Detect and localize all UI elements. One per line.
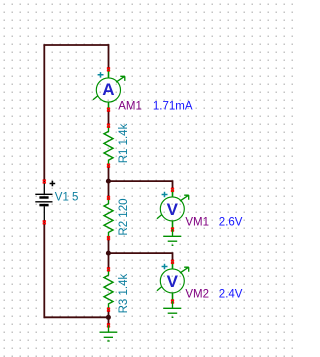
wire R2 bottom to node B (108, 238, 110, 253)
ammeter pin bottom (107, 108, 110, 112)
svg-text:A: A (102, 80, 114, 99)
ground pin (node C) (107, 324, 110, 328)
node B junction dot (106, 251, 111, 256)
wire node B branch to VM2 (109, 253, 173, 262)
resistor R2 pin top (107, 196, 110, 200)
voltmeter VM1 pin top (171, 188, 174, 192)
ground for VM1 (163, 230, 181, 246)
arrow (116, 76, 125, 82)
resistor R2 pin bottom (107, 236, 110, 240)
svg-text:R2 120: R2 120 (118, 199, 130, 236)
battery pin top (43, 180, 46, 184)
wire R1 bottom to node A (108, 166, 110, 182)
wire up to battery- (43, 222, 45, 318)
svg-text:1.71mA: 1.71mA (153, 101, 193, 113)
voltmeter VM2 pin bottom (171, 300, 174, 304)
voltmeter VM1 pin bottom (171, 228, 174, 232)
wire R3 bottom to node C (108, 310, 110, 318)
svg-text:VM2: VM2 (185, 289, 209, 301)
ammeter AM1 (93, 69, 125, 109)
voltmeter VM1 (157, 190, 189, 230)
wire node B to R3 top (108, 253, 110, 269)
svg-text:2.4V: 2.4V (219, 289, 243, 301)
wire bottom horizontal (44, 316, 108, 318)
voltmeter VM2 (157, 262, 189, 302)
wire ammeter bottom to R1 top (108, 110, 110, 126)
svg-text:R3 1.4k: R3 1.4k (118, 274, 130, 314)
svg-text:AM1: AM1 (118, 101, 142, 113)
svg-text:V: V (167, 272, 179, 291)
wire down to ammeter top pin (108, 44, 110, 69)
svg-text:R1 1.4k: R1 1.4k (118, 123, 130, 163)
svg-text:V1 5: V1 5 (55, 192, 79, 204)
resistor R3 pin bottom (107, 308, 110, 312)
wire node A to R2 top (108, 181, 110, 198)
svg-text:VM1: VM1 (185, 217, 209, 229)
battery V1 (35, 181, 55, 223)
wire node A branch to VM1 (109, 181, 173, 190)
polarity + (98, 72, 104, 78)
ammeter pin top (107, 68, 110, 72)
wire node C stub down to ground pin (108, 317, 110, 325)
resistor R2 (104, 198, 113, 238)
voltmeter VM2 pin top (171, 260, 174, 264)
resistor R1 pin bottom (107, 164, 110, 168)
resistor R1 (104, 126, 113, 166)
ground (bottom, node C) (100, 325, 118, 341)
node C junction dot (106, 315, 111, 320)
svg-text:V: V (167, 200, 179, 219)
slash (93, 96, 98, 100)
ground for VM2 (163, 302, 181, 318)
wire battery+ up to top-left corner (43, 45, 45, 182)
battery pin bottom (43, 221, 46, 225)
svg-text:2.6V: 2.6V (219, 217, 243, 229)
resistor R3 (104, 269, 113, 309)
resistor R1 pin top (107, 124, 110, 128)
wire top horizontal (43, 44, 108, 46)
node A junction dot (106, 179, 111, 184)
resistor R3 pin top (107, 268, 110, 272)
